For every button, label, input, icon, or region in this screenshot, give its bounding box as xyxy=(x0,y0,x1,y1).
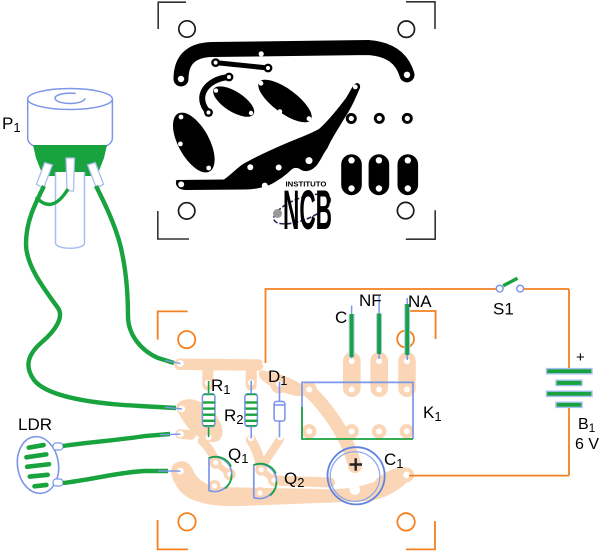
copper pad hole in top band middle xyxy=(351,56,356,61)
svg-text:Q1: Q1 xyxy=(228,445,248,466)
relay K1 xyxy=(302,382,413,439)
lugs xyxy=(53,443,63,486)
mounting hole top-left xyxy=(179,21,195,37)
wire NA xyxy=(406,298,408,360)
svg-text:6 V: 6 V xyxy=(575,436,599,453)
wire LDR top to pad3 xyxy=(63,434,170,446)
copper bone trace xyxy=(216,63,268,68)
copper relay pod 1 xyxy=(341,154,362,195)
peach finger Q2 right to C1 xyxy=(274,481,330,483)
svg-text:R1: R1 xyxy=(211,376,231,397)
board hole top-left xyxy=(178,331,195,348)
wire orange from board to S1 rail xyxy=(266,289,497,363)
copper swoosh trace xyxy=(176,83,360,190)
NCB logo xyxy=(270,178,334,241)
peach pods Q2 xyxy=(255,464,267,476)
svg-text:+: + xyxy=(576,349,585,366)
copper (component side, peach) xyxy=(171,352,416,506)
battery B1 xyxy=(547,369,593,408)
resistor R2 xyxy=(245,381,258,439)
lugs xyxy=(36,158,104,191)
peach around C1 plus lead xyxy=(348,459,362,473)
svg-text:NA: NA xyxy=(408,292,432,311)
peach leaf D1 to Q2 xyxy=(263,439,280,466)
svg-text:P1: P1 xyxy=(2,114,21,135)
cylinder body xyxy=(28,99,113,151)
copper relay pod 2 xyxy=(369,154,390,195)
mounting hole bottom-left xyxy=(179,203,195,219)
wire LDR bottom to pad4 xyxy=(63,471,168,483)
copper arc trace xyxy=(202,77,229,113)
peach finger C1 right pad xyxy=(382,475,407,484)
wire orange bottom from battery to C1 pad xyxy=(409,475,569,477)
peach link Q2 pads xyxy=(262,470,273,480)
copper ring pad row 3 xyxy=(402,113,413,124)
peach leaf R2 to Q2 xyxy=(251,440,261,466)
svg-text:Q2: Q2 xyxy=(284,469,304,490)
resistor R1 xyxy=(202,381,215,437)
svg-text:D1: D1 xyxy=(268,367,288,388)
wire C xyxy=(351,306,353,359)
pcb corner crop mark top-right xyxy=(406,2,435,29)
potentiometer P1 xyxy=(28,89,113,249)
peach finger pad3 xyxy=(180,434,191,435)
peach rings relay bottom pads xyxy=(302,424,414,439)
peach stub Q2 bottom to band xyxy=(257,493,264,499)
copper trace top band xyxy=(181,48,407,80)
pcb corner crop mark top-left xyxy=(158,2,186,29)
peach bottom band xyxy=(171,461,410,506)
copper ring pad row 1 xyxy=(346,113,357,124)
wire orange right rail lower (battery - to bottom) xyxy=(568,407,570,476)
peach link Q1 pads xyxy=(216,463,229,474)
board hole bottom-right xyxy=(397,513,414,530)
peach blob pad2/R1 xyxy=(177,399,223,442)
capacitor C1 xyxy=(328,447,385,504)
svg-text:K1: K1 xyxy=(423,403,442,424)
board corner mark top-left xyxy=(158,311,188,339)
copper ring pad row 2 xyxy=(374,113,385,124)
copper pad hole in top band left xyxy=(178,76,184,82)
copper lens trace middle xyxy=(208,80,258,122)
mounting hole top-right xyxy=(398,21,414,37)
peach band from P1 pad to orange node xyxy=(180,359,258,371)
svg-text:C: C xyxy=(335,308,347,327)
copper relay pod 3 xyxy=(398,154,419,195)
peach pod R2 top xyxy=(246,368,257,385)
board hole top-right xyxy=(397,331,414,348)
peach pods Q1 xyxy=(209,457,363,499)
board corner mark bottom-right xyxy=(406,521,435,549)
board hole bottom-left xyxy=(178,513,195,530)
switch S1 xyxy=(496,278,523,292)
peach pod above relay 3 xyxy=(398,352,416,397)
shaft xyxy=(56,172,85,248)
board corner mark top-right xyxy=(410,311,436,339)
copper lens trace right xyxy=(252,72,318,129)
peach pod D1 top xyxy=(271,377,288,394)
svg-text:NCB: NCB xyxy=(283,178,332,241)
svg-text:NF: NF xyxy=(359,291,382,310)
transistor Q1 xyxy=(209,457,232,491)
green wire arc middle lug xyxy=(36,189,68,204)
wire orange right rail upper (to battery +) xyxy=(568,289,570,369)
svg-text:LDR: LDR xyxy=(18,415,52,434)
wire P1 left to pad2 xyxy=(26,186,176,408)
peach leaf to Q1 xyxy=(202,441,216,461)
svg-text:C1: C1 xyxy=(384,450,404,471)
peach stub Q1 bottom to band xyxy=(213,486,215,494)
mounting hole bottom-right xyxy=(397,202,413,218)
peach ring relay TL pad xyxy=(302,382,317,397)
copper pod trace left xyxy=(164,106,223,179)
board corner mark bottom-left xyxy=(158,520,188,549)
peach pod above relay 1 xyxy=(343,352,361,397)
LDR xyxy=(14,434,63,496)
peach band to relay left xyxy=(259,371,309,397)
green rear cover xyxy=(33,145,107,176)
wire P1 right to pad1 xyxy=(96,186,174,363)
peach pod R1 top xyxy=(202,368,213,385)
svg-text:R2: R2 xyxy=(224,406,244,427)
svg-text:B1: B1 xyxy=(578,416,596,435)
peach diagonal trace through relay to C1 xyxy=(308,390,354,463)
pad holes (white) on component side xyxy=(177,358,410,496)
transistor Q2 xyxy=(254,464,277,498)
pcb corner crop mark bottom-left xyxy=(158,211,189,239)
pcb corner crop mark bottom-right xyxy=(406,210,435,239)
wire NF xyxy=(378,296,380,359)
svg-text:S1: S1 xyxy=(493,300,514,319)
copper pad hole in top band right xyxy=(404,72,410,78)
peach pod above relay 2 xyxy=(370,352,388,397)
diode D1 xyxy=(274,382,285,438)
